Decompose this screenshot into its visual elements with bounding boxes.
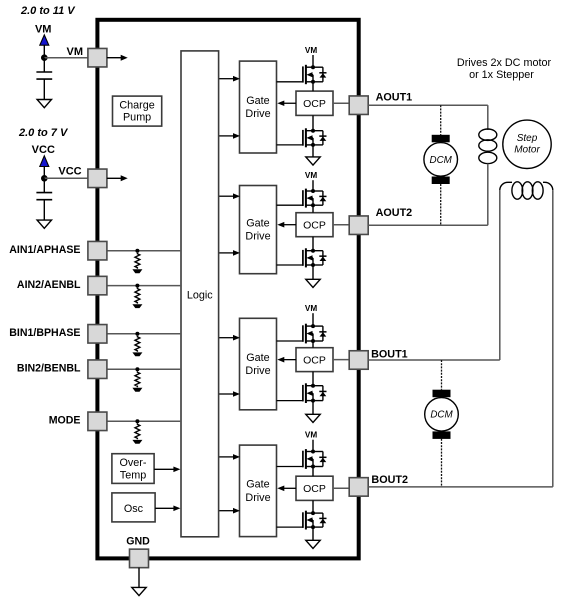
- svg-text:VCC: VCC: [58, 166, 81, 178]
- svg-text:Drives 2x DC motor: Drives 2x DC motor: [457, 57, 552, 69]
- svg-text:2.0 to 7 V: 2.0 to 7 V: [18, 127, 69, 139]
- svg-text:Gate: Gate: [246, 217, 269, 229]
- svg-text:Temp: Temp: [120, 470, 146, 482]
- svg-text:Drive: Drive: [245, 231, 270, 243]
- svg-text:VM: VM: [67, 46, 84, 58]
- svg-text:Gate: Gate: [246, 352, 269, 364]
- svg-text:AOUT1: AOUT1: [376, 91, 413, 103]
- svg-text:Drive: Drive: [245, 365, 270, 377]
- svg-text:VM: VM: [305, 46, 317, 55]
- svg-text:or 1x Stepper: or 1x Stepper: [469, 69, 534, 81]
- svg-text:Over-: Over-: [120, 457, 147, 469]
- svg-text:DCM: DCM: [430, 410, 453, 421]
- svg-text:OCP: OCP: [303, 220, 326, 232]
- svg-text:Logic: Logic: [187, 289, 213, 301]
- svg-text:AIN1/APHASE: AIN1/APHASE: [9, 244, 80, 256]
- svg-text:Drive: Drive: [245, 492, 270, 504]
- svg-text:VM: VM: [305, 171, 317, 180]
- svg-text:Gate: Gate: [246, 479, 269, 491]
- svg-text:Motor: Motor: [514, 145, 540, 156]
- svg-text:BIN2/BENBL: BIN2/BENBL: [17, 363, 81, 375]
- svg-text:BOUT2: BOUT2: [371, 474, 408, 486]
- svg-text:OCP: OCP: [303, 354, 326, 366]
- svg-text:OCP: OCP: [303, 98, 326, 110]
- svg-text:VM: VM: [305, 431, 317, 440]
- svg-text:Drive: Drive: [245, 108, 270, 120]
- svg-text:AIN2/AENBL: AIN2/AENBL: [17, 279, 81, 291]
- svg-text:AOUT2: AOUT2: [376, 207, 413, 219]
- svg-text:BIN1/BPHASE: BIN1/BPHASE: [9, 327, 80, 339]
- svg-text:OCP: OCP: [303, 483, 326, 495]
- svg-text:Pump: Pump: [123, 112, 151, 124]
- svg-text:VM: VM: [35, 24, 52, 36]
- svg-text:MODE: MODE: [49, 415, 81, 427]
- svg-text:Charge: Charge: [119, 99, 154, 111]
- svg-text:Step: Step: [517, 133, 538, 144]
- svg-text:Osc: Osc: [124, 503, 144, 515]
- svg-text:BOUT1: BOUT1: [371, 349, 408, 361]
- svg-text:DCM: DCM: [430, 155, 453, 166]
- svg-text:Gate: Gate: [246, 95, 269, 107]
- svg-text:VCC: VCC: [32, 144, 55, 156]
- svg-text:VM: VM: [305, 304, 317, 313]
- svg-text:2.0 to 11 V: 2.0 to 11 V: [20, 5, 76, 17]
- svg-text:GND: GND: [126, 535, 150, 547]
